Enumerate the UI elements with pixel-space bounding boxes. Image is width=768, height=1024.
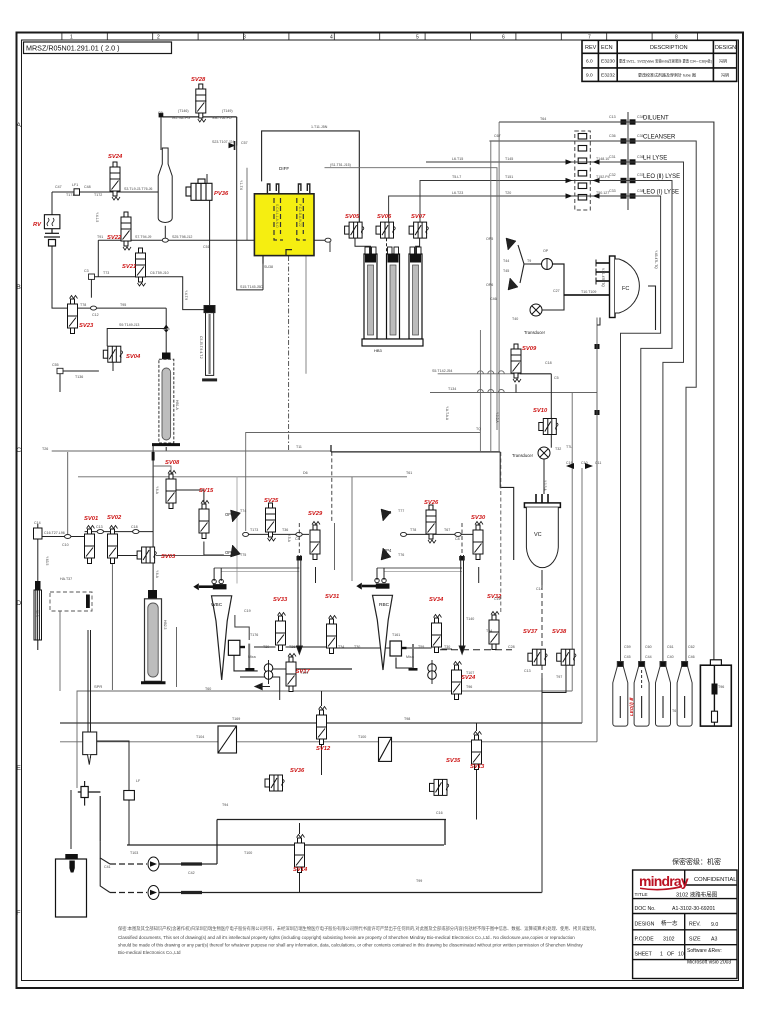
optic OP3: [381, 509, 391, 521]
TOPTABLES: [582, 40, 737, 81]
svg-text:T134: T134: [448, 387, 456, 391]
svg-text:T169: T169: [232, 717, 240, 721]
heater base HB3: [362, 339, 423, 346]
svg-text:C13: C13: [609, 115, 616, 119]
svg-text:T64: T64: [540, 117, 546, 121]
optic OP5: [506, 238, 516, 250]
node C1: [152, 452, 155, 461]
svg-text:S3.TL9.J3.T76.J6: S3.TL9.J3.T76.J6: [124, 187, 152, 191]
wire VC left feed: [500, 452, 514, 560]
junction chamber1 feed: [163, 325, 170, 333]
svg-text:30.9: 30.9: [35, 610, 39, 617]
svg-text:T34: T34: [338, 645, 344, 649]
svg-text:C48: C48: [84, 185, 91, 189]
wire FC nose right: [648, 286, 656, 330]
svg-text:T100: T100: [244, 851, 252, 855]
svg-text:SV22: SV22: [107, 235, 122, 241]
svg-text:SU38: SU38: [264, 265, 273, 269]
svg-text:SV21: SV21: [122, 264, 136, 270]
wire op gap: [530, 263, 542, 265]
node C2: [330, 445, 332, 452]
svg-text:C57: C57: [241, 141, 248, 145]
wire SV08 branch: [153, 466, 171, 473]
wire WBC tbox drain: [234, 656, 258, 671]
wire SV21 row: [91, 277, 209, 310]
chamber VC: [524, 494, 560, 568]
svg-text:REV.: REV.: [689, 922, 701, 928]
reagent names: [643, 116, 680, 196]
optic OP2: [231, 545, 241, 557]
svg-text:C14: C14: [34, 521, 41, 525]
valve SV09: [511, 344, 521, 382]
bottle 4: [677, 662, 692, 727]
svg-text:Mixa: Mixa: [406, 655, 414, 659]
svg-text:T96: T96: [466, 685, 472, 689]
wire RBC tbox drain: [396, 658, 412, 669]
wire y741 grey long: [60, 741, 597, 743]
svg-text:HB3: HB3: [374, 348, 383, 353]
svg-text:T78: T78: [410, 528, 416, 532]
wire FC bottom drain: [597, 318, 600, 326]
svg-text:D6: D6: [303, 471, 308, 475]
wire SV22 row: [98, 239, 209, 241]
connector pair DILUENT: [621, 119, 636, 124]
wire SV22 row extension: [210, 239, 330, 241]
svg-text:C16: C16: [494, 597, 501, 601]
wire RBC sample feed: [377, 567, 462, 569]
valve SV01: [85, 526, 95, 564]
staircase DILUENT to container: [499, 122, 714, 660]
valve SV04: [103, 346, 122, 362]
probe WBC: [297, 555, 303, 654]
wire SV03 out row: [156, 555, 231, 557]
svg-text:3: 3: [243, 35, 246, 41]
svg-text:C19: C19: [566, 461, 573, 465]
svg-text:FC: FC: [622, 286, 629, 292]
svg-text:Y.A.T.A.A: Y.A.T.A.A: [445, 406, 449, 421]
valve SV38: [557, 649, 576, 665]
svg-text:SV31: SV31: [325, 594, 339, 600]
wire C9 to column top: [160, 117, 162, 150]
wire C51b stub: [329, 242, 331, 252]
svg-text:C42: C42: [188, 871, 195, 875]
staircase CLEANSER to bottle4: [489, 141, 696, 664]
wire probe cap WBC: [297, 556, 303, 561]
svg-text:C18: C18: [545, 361, 552, 365]
node C51b: [325, 238, 331, 242]
valve PV36: [186, 179, 212, 200]
svg-text:SV05: SV05: [345, 214, 360, 220]
wire SV03 row: [112, 556, 137, 565]
svg-text:SV30: SV30: [471, 515, 486, 521]
svg-text:C8: C8: [455, 537, 460, 541]
svg-text:C60: C60: [645, 645, 652, 649]
box LP: [124, 791, 135, 801]
svg-text:T20: T20: [505, 191, 511, 195]
wire pump2 row: [110, 892, 542, 894]
svg-text:A1-3102-30-69201: A1-3102-30-69201: [672, 906, 715, 912]
connector C30 on FC drain: [595, 410, 600, 415]
svg-text:T145: T145: [505, 157, 513, 161]
svg-text:9.0: 9.0: [711, 922, 718, 928]
svg-text:MRSZ/R05N01.291.01 ( 2.0 ): MRSZ/R05N01.291.01 ( 2.0 ): [26, 44, 119, 53]
funnel RBC: [356, 568, 392, 670]
svg-text:T10.T109: T10.T109: [581, 290, 596, 294]
svg-text:SV10: SV10: [533, 408, 548, 414]
svg-text:C13: C13: [96, 525, 103, 529]
wire RV down SV23: [52, 246, 68, 308]
svg-text:C27: C27: [553, 289, 560, 293]
REAGENT: [389, 112, 714, 664]
svg-text:C36: C36: [609, 134, 616, 138]
wire SV32 feed dash: [500, 452, 502, 613]
wire transducer3 stub: [543, 460, 545, 495]
wire bus 500: [498, 122, 500, 452]
svg-text:C4: C4: [295, 537, 300, 541]
svg-text:Microsoft visio 2003: Microsoft visio 2003: [687, 960, 731, 966]
svg-text:4: 4: [330, 35, 333, 41]
svg-text:T60: T60: [205, 687, 211, 691]
wire chamber1 feed: [165, 308, 167, 361]
chamber1 cap: [162, 353, 171, 362]
mixer rod RBC: [409, 644, 418, 669]
wire S5.T142 grey row: [438, 373, 520, 375]
svg-text:SIZE: SIZE: [689, 937, 701, 943]
svg-text:C16.T27.L96: C16.T27.L96: [44, 531, 65, 535]
valve SV22: [121, 212, 131, 250]
svg-text:保密:本图及其全部知识产权(含著作权)归深圳迈瑞生物医疗电子: 保密:本图及其全部知识产权(含著作权)归深圳迈瑞生物医疗电子股份有限公司所有，未…: [118, 925, 599, 932]
svg-text:(T149): (T149): [222, 109, 233, 113]
svg-text:E: E: [17, 765, 22, 772]
wire funnel WBC side: [235, 615, 249, 640]
svg-text:C10: C10: [62, 543, 69, 547]
svg-text:T44: T44: [503, 259, 509, 263]
svg-text:C33: C33: [609, 189, 616, 193]
wire left bus vertical: [37, 539, 39, 590]
top zone digits: [70, 35, 678, 41]
node C10b: [401, 532, 407, 536]
valve SV37: [528, 649, 547, 665]
svg-text:T64: T64: [486, 629, 492, 633]
svg-text:SV24: SV24: [108, 154, 123, 160]
arrow left small: [255, 684, 270, 690]
column2 narrow: [202, 306, 217, 380]
svg-text:T136: T136: [75, 375, 83, 379]
wire SV10 line: [550, 374, 552, 448]
svg-text:C16: C16: [436, 811, 443, 815]
filter box mid: [379, 737, 392, 761]
wire SV14 drain: [299, 872, 301, 893]
svg-text:T97: T97: [556, 675, 562, 679]
optic OP6: [508, 278, 518, 290]
wire SV13 stubs: [476, 723, 478, 731]
svg-text:RV: RV: [33, 222, 42, 228]
valve SV03: [137, 547, 156, 563]
node C55: [57, 368, 63, 373]
junction arrows right: [566, 463, 593, 469]
svg-text:1.T11.J5N: 1.T11.J5N: [311, 125, 328, 129]
heater link SV07: [416, 238, 420, 254]
wire probe cap RBC: [459, 556, 465, 561]
wire OP34 row: [404, 533, 473, 535]
column flask: [158, 148, 172, 223]
wire cup feed: [70, 790, 72, 849]
wire fitting row c: [337, 647, 391, 649]
wire SV09 top stub: [515, 384, 517, 392]
svg-text:P.CODE: P.CODE: [635, 937, 655, 943]
heater cylinder 3: [409, 247, 422, 339]
svg-text:Software &Rev:: Software &Rev:: [687, 948, 722, 954]
wire DIFF loop top: [262, 131, 360, 222]
svg-text:SV03: SV03: [161, 554, 176, 560]
svg-text:T172: T172: [94, 193, 102, 197]
svg-text:保密密级：机密: 保密密级：机密: [672, 857, 721, 866]
wire PV36 top stub: [206, 174, 208, 183]
wire OP opcircle path: [518, 245, 530, 264]
wire tee drop: [99, 796, 101, 842]
svg-text:SV08: SV08: [165, 460, 180, 466]
wire hops row373: [477, 371, 504, 374]
svg-text:T5.L7: T5.L7: [452, 175, 461, 179]
svg-text:Y.0.5.A: Y.0.5.A: [543, 480, 547, 491]
wire C3 down to SV23: [90, 279, 92, 297]
svg-text:C: C: [17, 447, 22, 454]
svg-text:T11: T11: [296, 445, 302, 449]
svg-text:5: 5: [416, 35, 419, 41]
svg-text:TITLE: TITLE: [635, 892, 648, 898]
svg-text:OP2: OP2: [225, 550, 234, 555]
valve SV24b: [452, 662, 462, 700]
svg-text:REV: REV: [585, 45, 597, 51]
valve SV26: [426, 505, 436, 543]
arrow joints LH row: [566, 159, 600, 164]
svg-text:DESCRIPTION: DESCRIPTION: [650, 45, 688, 51]
wire SV32 dash row: [440, 649, 512, 651]
svg-text:C62: C62: [688, 645, 695, 649]
container bottom-left: [56, 859, 87, 917]
svg-text:C3: C3: [84, 269, 89, 273]
reagent inlet bus vertical: [627, 112, 629, 210]
wire VC drain lower: [541, 693, 543, 893]
svg-text:S5.T142.J54: S5.T142.J54: [432, 369, 452, 373]
svg-text:C9: C9: [158, 111, 163, 115]
wire TQ grey row: [246, 433, 480, 532]
node C12: [91, 306, 97, 310]
svg-text:SV37: SV37: [523, 629, 538, 635]
svg-text:S15.T145.J5D: S15.T145.J5D: [240, 285, 263, 289]
svg-text:C37: C37: [637, 173, 644, 177]
svg-text:C40: C40: [667, 655, 674, 659]
wire joint 446: [444, 820, 446, 846]
svg-text:6: 6: [502, 35, 505, 41]
wire D6 grey row: [78, 476, 407, 478]
svg-text:T96: T96: [718, 685, 724, 689]
valve SV32: [489, 612, 499, 650]
wire DIFF left pipe: [262, 256, 264, 290]
svg-text:C32: C32: [609, 173, 616, 177]
wire SV38 bottom: [542, 666, 566, 693]
svg-text:HA.T37: HA.T37: [60, 577, 72, 581]
svg-text:SV33: SV33: [273, 597, 288, 603]
svg-text:OF: OF: [667, 952, 674, 958]
svg-text:Y.63.5: Y.63.5: [45, 556, 49, 565]
svg-text:T26: T26: [42, 447, 48, 451]
cup funnel small: [66, 855, 78, 873]
svg-text:3102 液路布局图: 3102 液路布局图: [676, 891, 718, 899]
svg-text:T104: T104: [196, 735, 204, 739]
wire sample feed 2 RBC: [384, 571, 462, 573]
wire grey drop SV02: [111, 564, 113, 690]
svg-text:C36: C36: [637, 155, 644, 159]
wire fitting row e: [442, 648, 453, 650]
svg-text:SV07: SV07: [411, 214, 426, 220]
dashed box HA: [50, 592, 92, 611]
svg-text:T36: T36: [282, 528, 288, 532]
valve SV28: [196, 84, 206, 122]
fitting under WBC: [228, 640, 245, 655]
svg-text:T39: T39: [263, 645, 269, 649]
transducer2: [530, 304, 542, 316]
wire fitting row a: [254, 646, 276, 648]
svg-text:T91: T91: [97, 235, 103, 239]
wire SV17 out: [295, 668, 353, 670]
arrow joints LEO II row: [566, 178, 600, 183]
wire fork1: [100, 842, 110, 864]
node C4: [296, 532, 302, 536]
dashed connector box: [575, 131, 591, 210]
svg-text:L6.T15: L6.T15: [452, 157, 463, 161]
wire C2 down dash: [331, 452, 333, 521]
svg-text:SV38: SV38: [552, 629, 567, 635]
valve RV: [44, 215, 60, 229]
svg-text:C46: C46: [688, 655, 695, 659]
wire SV28 right elbow down: [236, 117, 238, 146]
title block table: [633, 870, 737, 979]
svg-text:更改 SV21、SV22(Valve 安装India压紧密封: 更改 SV21、SV22(Valve 安装India压紧密封·更改 C34－C3…: [619, 58, 713, 64]
svg-text:PV36: PV36: [214, 191, 229, 197]
svg-text:SV12: SV12: [316, 746, 331, 752]
wire SPR link: [97, 741, 129, 791]
svg-text:C11: C11: [595, 461, 601, 465]
svg-text:should be made of this drawing: should be made of this drawing or any pa…: [118, 943, 583, 948]
wire pump1 row: [110, 863, 217, 865]
wire fork2: [100, 858, 110, 893]
svg-text:C10: C10: [581, 461, 588, 465]
connector squares inside dashed box: [578, 134, 587, 201]
svg-text:C6.T59.J10: C6.T59.J10: [150, 271, 169, 275]
chamber2 grey tall: [141, 599, 166, 683]
svg-text:Y.6.A: Y.6.A: [155, 486, 159, 495]
svg-text:S9.T149.J13: S9.T149.J13: [119, 323, 139, 327]
wire transducer2 link: [542, 295, 564, 310]
svg-text:T6: T6: [672, 709, 676, 713]
svg-text:OP: OP: [543, 249, 549, 253]
filter box left: [218, 726, 237, 753]
staircase LEO II to bottle2: [420, 181, 672, 664]
svg-text:SV01: SV01: [84, 516, 98, 522]
svg-text:DESIGN: DESIGN: [715, 45, 736, 51]
svg-text:E3230: E3230: [601, 59, 615, 65]
svg-text:WBC: WBC: [211, 602, 223, 608]
svg-text:T171: T171: [66, 193, 74, 197]
heater link SV06: [386, 238, 388, 254]
wire bus 597 FC drain: [596, 318, 598, 742]
wire probe dash WBC: [298, 523, 300, 555]
svg-text:I91.T6L.FG: I91.T6L.FG: [172, 116, 190, 120]
wire SV12 top stub: [321, 691, 323, 706]
valve SV21: [136, 248, 146, 286]
wire y845 black: [127, 844, 444, 846]
svg-text:C12: C12: [92, 313, 99, 317]
ground symbol RV: [44, 229, 60, 246]
svg-text:C31: C31: [609, 155, 616, 159]
valve SV34: [432, 615, 442, 653]
svg-text:HB2.3: HB2.3: [163, 620, 167, 630]
mixer small left: [264, 660, 273, 684]
wire DIFF right grey down: [305, 256, 307, 374]
connector C14: [34, 524, 43, 539]
optic OP4: [381, 548, 391, 560]
node C8: [455, 532, 461, 536]
wire SV30 stub: [478, 567, 480, 583]
valve SV36: [265, 775, 284, 791]
valve SV10: [539, 419, 558, 435]
wire SV08 drop: [176, 627, 178, 687]
svg-text:LH LYSE: LH LYSE: [643, 156, 667, 162]
wire bottom mid vert: [321, 745, 323, 775]
svg-text:C45: C45: [624, 655, 631, 659]
valve SV25: [266, 503, 276, 541]
svg-text:SV23: SV23: [79, 323, 94, 329]
valve SV02: [108, 526, 118, 564]
wire VC drain dashed: [541, 570, 543, 693]
svg-text:C18: C18: [131, 525, 138, 529]
bottle 2: [634, 662, 649, 727]
wire y819 black: [217, 819, 446, 821]
svg-text:P.C.6.D.A.W.22: P.C.6.D.A.W.22: [298, 204, 302, 227]
wire SV04 top row: [107, 329, 166, 347]
wire RV top: [51, 192, 53, 215]
node C10: [65, 535, 71, 539]
wire dashdot probe feed: [288, 256, 290, 452]
transducer3: [538, 447, 550, 459]
funnel WBC: [193, 568, 231, 680]
svg-text:SV14: SV14: [293, 867, 308, 873]
svg-text:SHEET: SHEET: [635, 952, 653, 958]
svg-text:T152.P4: T152.P4: [596, 175, 610, 179]
wire SV04 bottom: [112, 362, 114, 371]
connector pair LEO II LYSE: [621, 178, 636, 183]
svg-text:SV09: SV09: [522, 346, 537, 352]
wire chamber1 base stub: [165, 447, 167, 451]
wire aux vertical 247: [246, 168, 248, 241]
svg-text:Y.0.3.A: Y.0.3.A: [495, 412, 499, 423]
svg-text:SV06: SV06: [377, 214, 392, 220]
pump OP: [542, 259, 553, 270]
wire OP12 row: [246, 533, 309, 535]
node C6: [243, 532, 249, 536]
valve SV15: [199, 501, 209, 539]
svg-text:E3232: E3232: [601, 73, 615, 79]
svg-text:C55: C55: [52, 363, 59, 367]
svg-text:C19: C19: [244, 609, 251, 613]
svg-text:T151: T151: [505, 175, 513, 179]
wire main long row black: [331, 451, 500, 453]
svg-text:T9: T9: [527, 259, 531, 263]
valve h437: [430, 779, 449, 795]
svg-text:SV36: SV36: [290, 768, 305, 774]
svg-text:CONFIDENTIAL: CONFIDENTIAL: [694, 877, 737, 883]
